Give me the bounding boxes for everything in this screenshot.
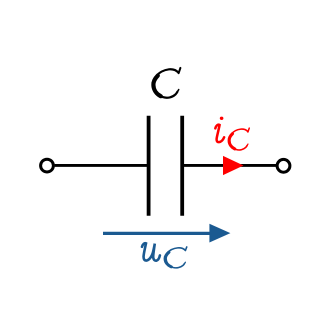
current arrow i_C	[223, 156, 244, 175]
label C	[153, 68, 180, 98]
label i_C	[215, 117, 249, 150]
wire left	[55, 164, 149, 167]
label u_C	[142, 243, 187, 268]
terminal left (open circle)	[41, 159, 54, 172]
wire right	[182, 164, 276, 167]
capacitor C	[149, 116, 183, 216]
terminal right	[277, 159, 290, 172]
voltage arrow u_C	[103, 224, 230, 243]
